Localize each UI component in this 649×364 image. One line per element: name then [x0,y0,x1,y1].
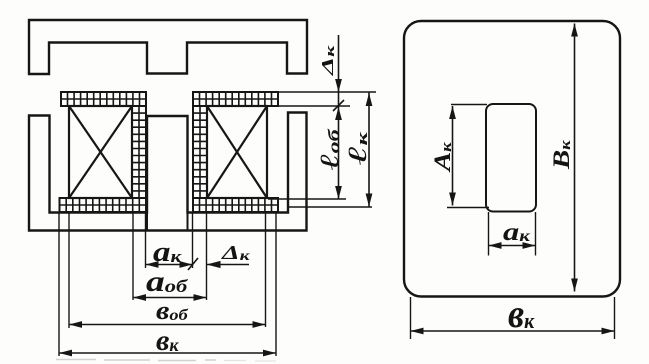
right figure: bobbin window (rounded) [486,104,536,212]
dimension line aob [133,297,207,299]
dimension line Ak [452,106,454,206]
dimension line l-k (vertical) [368,92,370,207]
bobbin bottom flange, left section (hatched) [60,198,147,212]
extension line aob left [132,213,134,300]
extension line bk-right-fig right [614,297,616,339]
label Bk (rotated, right figure) [549,140,575,170]
svg-text:вк: вк [156,324,179,357]
slash tick at l-ob top [333,100,344,111]
middle limb edges crossing bottom bar [147,213,188,231]
extension line winding bottom (y199) [268,198,346,200]
svg-text:Δк: Δк [319,45,338,77]
label vob [156,297,189,326]
extension line Ak bottom [447,207,489,209]
slash tick at ak/delta junction [188,258,198,270]
top yoke (armature) of magnetic core [29,20,307,74]
dimension line vob [69,324,266,326]
label ak (bottom) [153,236,183,267]
label bk (right figure) [508,292,535,336]
extension line vob left [68,213,70,328]
dimension line bk (left figure) [59,352,276,354]
scan smudge artifact at bottom [56,360,216,361]
svg-text:ℓоб: ℓоб [315,128,344,170]
extension line bk-right-fig left [410,297,412,339]
svg-text:ℓк: ℓк [344,131,373,165]
label delta-k (bottom) [221,242,250,264]
extension line Ak top [451,104,487,106]
dimension line ak (right figure) [489,245,536,247]
extension line ak right [192,213,194,268]
bobbin top flange, left section (hatched) [61,92,146,106]
svg-text:ак: ак [503,218,530,246]
extension line bk right [275,213,277,356]
svg-text:воб: воб [156,297,189,326]
extension line aob right / delta ref [206,213,208,300]
winding cross-section, right (X box) [207,106,267,198]
bottom E-shaped (Ш) core piece [29,113,307,231]
label Ak (rotated, right figure) [430,142,456,173]
extension line ak left [145,213,147,268]
label l-k (rotated) [344,131,373,165]
extension line coil top (y92) [278,91,376,93]
dimension line bk (right figure) [411,330,615,332]
dimension line l-ob (vertical) [338,92,340,199]
dimension line ak (bottom) [146,264,193,266]
extension line winding top (y106) [267,105,350,107]
extension line window bottom (y207) [287,206,372,208]
svg-text:аоб: аоб [146,265,188,298]
svg-text:Вк: Вк [549,140,575,170]
dimension line delta-k (top right, vertical) [338,35,340,92]
svg-text:ак: ак [153,236,183,267]
extension line ak-right-fig right [535,212,537,256]
extension line vob right [265,213,267,327]
label delta-k (top right, rotated) [319,45,338,77]
bobbin bottom flange, right section (hatched) [193,198,278,212]
bobbin top flange, right section (hatched) [193,92,278,106]
label bk (left figure) [156,324,179,357]
right figure: bobbin outer contour (rounded) [404,21,620,297]
extension line ak-right-fig left [488,212,490,256]
bobbin tube wall, right section (hatched) [193,106,207,198]
svg-text:Ак: Ак [430,142,456,173]
extension line bk left [58,213,60,356]
svg-text:вк: вк [508,292,535,336]
dimension line Bk [574,24,576,292]
svg-text:Δк: Δк [221,242,250,264]
dimension leader delta-k (bottom) [207,264,250,266]
label aob [146,265,188,298]
label l-ob (rotated) [315,128,344,170]
bobbin tube wall, left section (hatched) [132,106,146,198]
winding cross-section, left (X box) [69,106,132,198]
label ak (right figure) [503,218,530,246]
